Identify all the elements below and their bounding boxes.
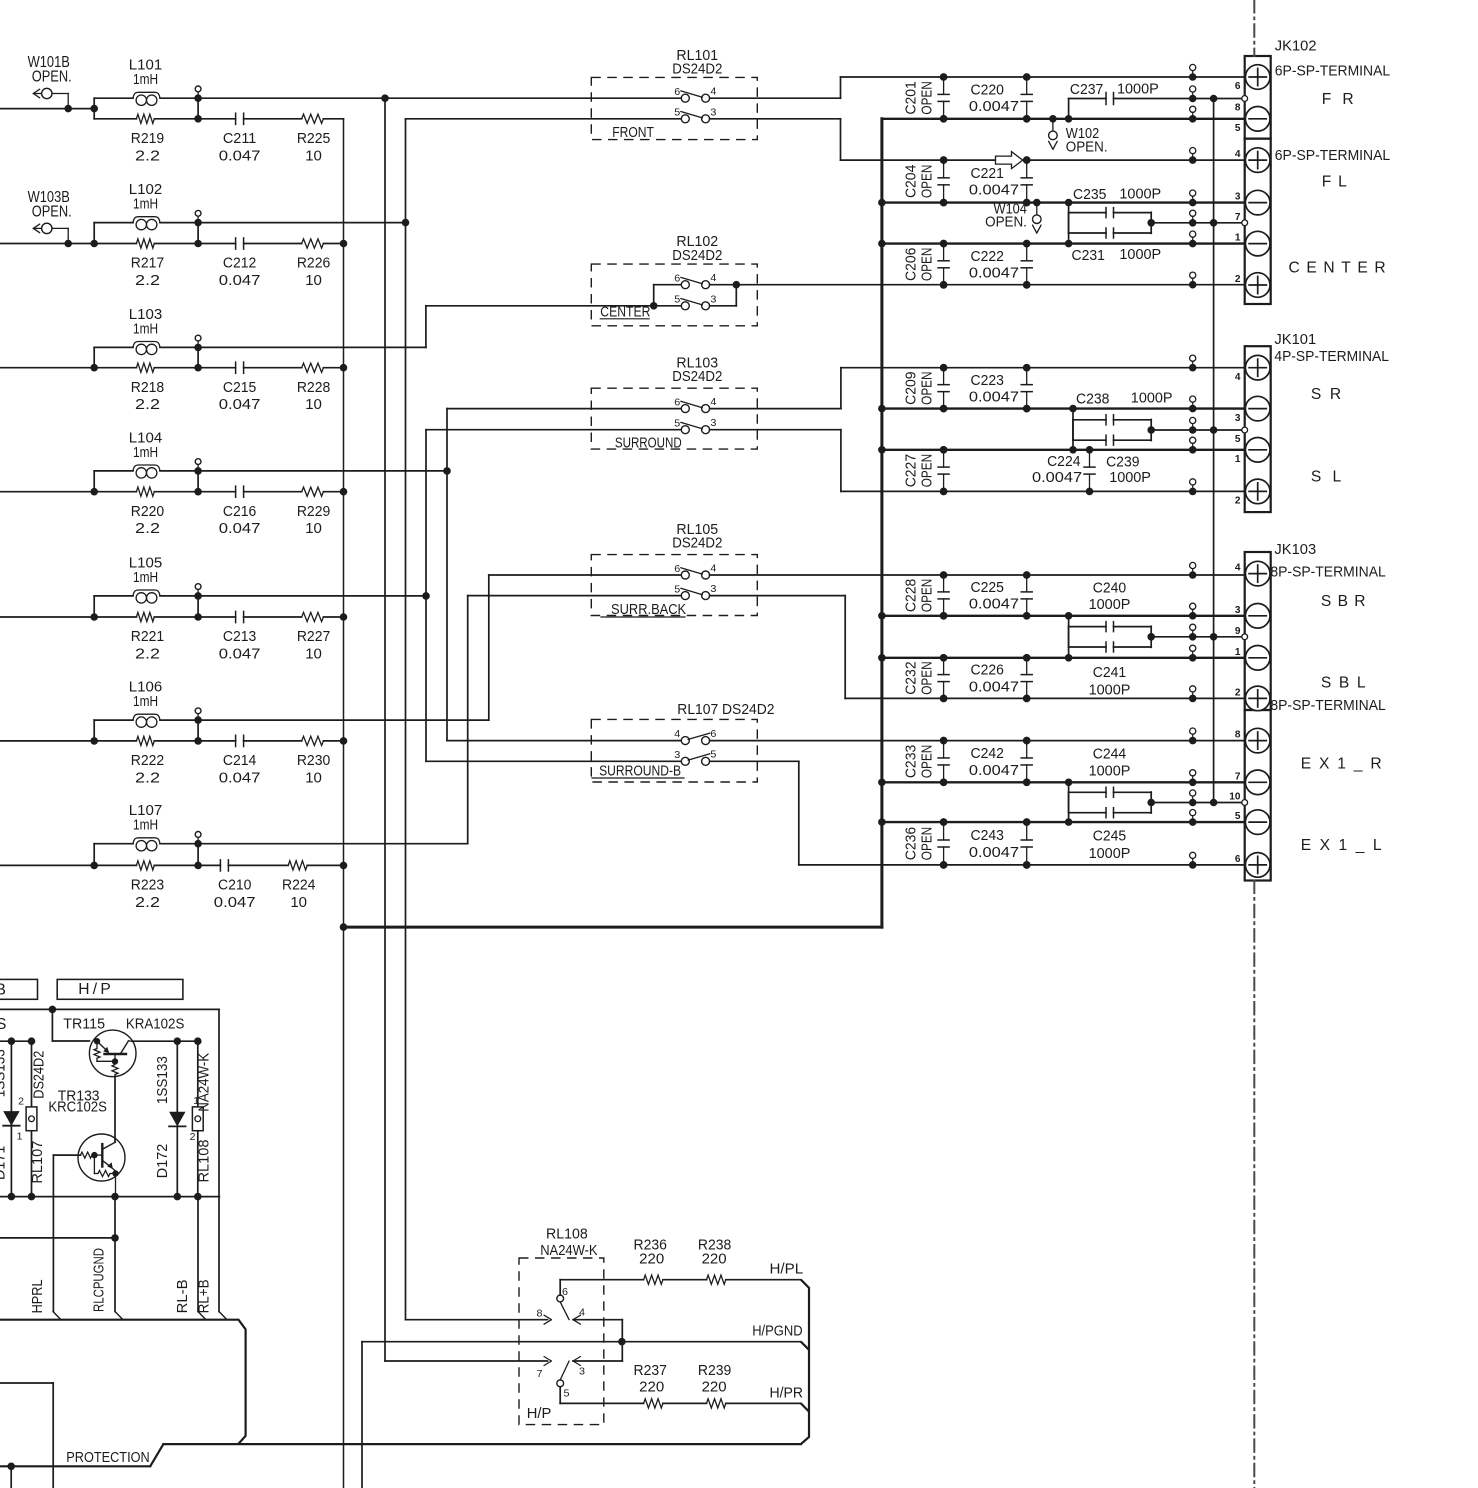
svg-text:SURROUND-B: SURROUND-B [599, 763, 681, 780]
svg-text:4: 4 [710, 86, 716, 98]
svg-text:R226: R226 [297, 255, 330, 272]
svg-text:C223: C223 [971, 372, 1004, 389]
capacitor C209 OPEN [943, 368, 945, 385]
terminal pin 4 + [1245, 561, 1270, 586]
svg-text:KRA102S: KRA102S [126, 1015, 184, 1032]
svg-text:C212: C212 [223, 255, 256, 272]
wire FL vertical [405, 119, 407, 1320]
wire input row 6 [0, 740, 94, 742]
page boundary dash-dot line [1253, 0, 1255, 56]
capacitor C240 1000P [1065, 612, 1073, 620]
svg-text:OPEN.: OPEN. [32, 204, 72, 221]
svg-text:C244: C244 [1093, 746, 1126, 763]
relay coil RL108 NA24W-K [197, 1041, 199, 1196]
svg-text:OPEN: OPEN [919, 81, 936, 114]
node SBL+ line [845, 697, 1245, 699]
node tap row 3 [194, 344, 202, 352]
svg-text:R228: R228 [297, 379, 330, 396]
svg-text:220: 220 [702, 1378, 727, 1395]
transistor TR115 KRA102S [63, 1015, 184, 1076]
svg-text:R221: R221 [131, 628, 164, 645]
svg-text:4: 4 [710, 562, 716, 574]
capacitor C233 OPEN [943, 741, 945, 758]
svg-text:OPEN: OPEN [919, 661, 936, 694]
contact RL102 pins 5-3 [654, 305, 682, 307]
contact RL102 pins 6-4 [681, 281, 689, 289]
wire SL to RL103 pin5 [426, 429, 681, 431]
terminal pin 6 + [1245, 853, 1270, 878]
node FR+ line [841, 76, 1246, 78]
node split row 7 [90, 862, 98, 870]
svg-text:3: 3 [710, 583, 716, 595]
contact RL108 pins 7-3-5 [544, 1357, 552, 1362]
resistor R229 10 [302, 487, 324, 496]
svg-text:C210: C210 [218, 877, 251, 894]
svg-text:3: 3 [1235, 191, 1241, 203]
svg-text:1: 1 [1235, 453, 1241, 465]
capacitor C235 1000P [1065, 199, 1073, 207]
svg-text:10: 10 [290, 894, 307, 911]
svg-text:C236: C236 [903, 827, 920, 860]
svg-text:2.2: 2.2 [135, 646, 160, 663]
wire TR115 collector to coils [133, 1040, 198, 1042]
svg-text:H/PGND: H/PGND [752, 1323, 802, 1340]
node SR- line [882, 407, 1246, 409]
wire RL-B [197, 1197, 199, 1312]
jumper W103B [33, 227, 41, 229]
contact RL108 pins 8-6-4 [385, 1360, 548, 1362]
svg-text:5: 5 [674, 107, 680, 119]
diode D172 1SS133 [176, 1041, 178, 1196]
svg-text:OPEN: OPEN [919, 454, 936, 487]
jumper W102 OPEN [1049, 115, 1057, 123]
svg-text:10: 10 [305, 272, 322, 289]
capacitor C225 0.0047 [1026, 575, 1028, 592]
wire TR133 base to HPRL [53, 1154, 80, 1156]
terminal pin 4 + [1245, 148, 1270, 173]
svg-text:R229: R229 [297, 503, 330, 520]
svg-text:9: 9 [1235, 625, 1241, 637]
svg-text:5: 5 [1235, 433, 1241, 445]
svg-text:H/PL: H/PL [770, 1261, 804, 1278]
node tap row 2 [194, 219, 202, 227]
capacitor C223 0.0047 [1026, 368, 1028, 385]
svg-text:1000P: 1000P [1089, 682, 1131, 699]
resistor R217 2.2 [94, 243, 136, 245]
svg-text:NA24W-K: NA24W-K [540, 1242, 597, 1259]
svg-text:R222: R222 [131, 752, 164, 769]
svg-text:1: 1 [1235, 646, 1241, 658]
svg-text:7: 7 [1235, 211, 1241, 223]
filter row 4: inductor L104 / resistor R220 / capacitor C216 / resistor R229 [0, 429, 347, 537]
capacitor C232 OPEN [943, 658, 945, 675]
svg-text:0.047: 0.047 [219, 646, 261, 663]
wire control top [0, 1008, 219, 1010]
capacitor C212 0.047 [198, 243, 236, 245]
wire input row 2 [0, 243, 94, 245]
node SBR- line [882, 615, 1246, 617]
wire RL107 out bottom [710, 760, 799, 762]
bus entry RL+B [219, 1312, 227, 1320]
svg-text:6: 6 [562, 1286, 568, 1298]
svg-text:0.0047: 0.0047 [969, 844, 1019, 861]
resistor R226 10 [302, 239, 324, 248]
svg-text:1000P: 1000P [1119, 246, 1161, 263]
resistor R219 2.2 [94, 118, 136, 120]
svg-text:OPEN.: OPEN. [1066, 139, 1108, 156]
svg-text:C213: C213 [223, 628, 256, 645]
svg-text:H/P: H/P [527, 1405, 552, 1422]
svg-text:C204: C204 [903, 165, 920, 198]
terminal pin 4 + [1245, 355, 1270, 380]
svg-text:2: 2 [1235, 495, 1241, 507]
wire SBL to RL105 pin5 [468, 595, 682, 597]
filter row 5: inductor L105 / resistor R221 / capacitor C213 / resistor R227 [0, 554, 347, 662]
svg-text:OPEN: OPEN [919, 371, 936, 404]
svg-text:R227: R227 [297, 628, 330, 645]
resistor R218 2.2 [94, 367, 136, 369]
svg-text:0.047: 0.047 [219, 147, 261, 164]
svg-text:C225: C225 [971, 579, 1004, 596]
filter row 6: inductor L106 / resistor R222 / capacitor C214 / resistor R230 [0, 679, 347, 787]
inductor L105 1mH [94, 595, 133, 597]
resistor R223 2.2 [94, 864, 136, 866]
node FL+ line [841, 159, 1246, 161]
node SL+ line [841, 490, 1246, 492]
wire row4 top to SR vertical [198, 470, 447, 472]
svg-text:0.047: 0.047 [219, 520, 261, 537]
terminal JK101 4P-SP-TERMINAL [1235, 331, 1389, 512]
node SR+ line [841, 367, 1246, 369]
svg-text:1: 1 [1235, 232, 1241, 244]
svg-text:10: 10 [305, 646, 322, 663]
node tap row 1 [194, 94, 202, 102]
svg-text:R219: R219 [131, 130, 164, 147]
svg-text:SURROUND: SURROUND [615, 434, 682, 451]
relay RL102 DS24D2 (CENTER) [591, 233, 757, 326]
svg-text:RLCPUGND: RLCPUGND [91, 1248, 108, 1312]
wire input row 5 [0, 616, 94, 618]
svg-text:6: 6 [674, 86, 680, 98]
svg-text:1mH: 1mH [133, 444, 158, 461]
svg-text:1000P: 1000P [1119, 185, 1161, 202]
svg-text:RL+B: RL+B [196, 1279, 213, 1313]
svg-text:1000P: 1000P [1109, 469, 1151, 486]
node split row 2 [90, 240, 98, 248]
filter row 7: inductor L107 / resistor R223 / capacitor C210 / resistor R224 [0, 802, 347, 911]
svg-text:C231: C231 [1072, 247, 1105, 264]
contact RL101 pins 5-3 [681, 115, 689, 123]
terminal pin 1 - [1245, 231, 1270, 256]
headphone cable run [801, 1280, 809, 1444]
svg-text:C237: C237 [1070, 81, 1103, 98]
contact RL105 pins 5-3 [681, 592, 689, 600]
svg-text:2.2: 2.2 [135, 894, 160, 911]
svg-text:1mH: 1mH [133, 569, 158, 586]
svg-text:OPEN: OPEN [919, 248, 936, 281]
svg-text:8: 8 [1235, 102, 1241, 114]
svg-text:4: 4 [710, 272, 716, 284]
svg-text:2.2: 2.2 [135, 396, 160, 413]
terminal pin 8 + [1245, 728, 1270, 753]
svg-text:0.0047: 0.0047 [969, 678, 1019, 695]
resistor R224 10 [288, 861, 307, 870]
svg-text:6: 6 [1235, 853, 1241, 865]
svg-text:0.0047: 0.0047 [969, 182, 1019, 199]
capacitor C201 OPEN [943, 77, 945, 94]
svg-text:3: 3 [674, 749, 680, 761]
svg-text:2.2: 2.2 [135, 147, 160, 164]
terminal pin 2 + [1245, 273, 1270, 298]
svg-text:2: 2 [18, 1096, 24, 1108]
svg-text:C206: C206 [903, 248, 920, 281]
svg-text:R218: R218 [131, 379, 164, 396]
wire SL vertical [425, 430, 427, 762]
net label box B [0, 979, 38, 999]
net label box H/P [57, 979, 183, 999]
svg-text:RL108: RL108 [196, 1140, 213, 1183]
capacitor C236 OPEN [943, 822, 945, 840]
relay RL108 NA24W-K (H/P) [385, 1226, 644, 1425]
svg-text:1mH: 1mH [133, 71, 158, 88]
capacitor C213 0.047 [198, 616, 236, 618]
svg-text:DS24D2: DS24D2 [672, 247, 722, 264]
svg-text:JK103: JK103 [1274, 541, 1316, 558]
node EX1_R- line [882, 781, 1246, 783]
svg-text:C235: C235 [1073, 186, 1106, 203]
svg-text:10: 10 [305, 520, 322, 537]
wire SBR to RL105 pin6 [489, 574, 682, 576]
capacitor C210 0.047 [198, 864, 220, 866]
resistor R239 220 [663, 1402, 707, 1404]
zobel common bus vertical [343, 119, 345, 1488]
resistor R225 10 [302, 114, 324, 123]
capacitor C238 1000P [1069, 405, 1077, 413]
wire input row 1 [0, 108, 94, 110]
capacitor C244 1000P [1065, 779, 1073, 787]
wire emitter chain [114, 1077, 116, 1143]
svg-text:220: 220 [702, 1251, 727, 1268]
svg-text:2: 2 [1235, 273, 1241, 285]
svg-text:0.0047: 0.0047 [969, 596, 1019, 613]
wire RL103 out bottom [710, 429, 841, 431]
svg-text:0.0047: 0.0047 [969, 98, 1019, 115]
svg-text:D171: D171 [0, 1146, 8, 1180]
svg-text:1mH: 1mH [133, 320, 158, 337]
svg-text:CENTER: CENTER [600, 303, 650, 320]
node tap row 7 [194, 840, 202, 848]
svg-text:C245: C245 [1093, 828, 1126, 845]
wire row3 top to RL102 [198, 346, 426, 348]
diode D171 1SS133 [10, 1041, 12, 1196]
svg-text:C216: C216 [223, 503, 256, 520]
node mid pin10 line [1150, 792, 1152, 813]
node split row 6 [90, 737, 98, 745]
svg-text:220: 220 [639, 1378, 664, 1395]
svg-text:4: 4 [1235, 371, 1241, 383]
svg-text:R220: R220 [131, 503, 164, 520]
node split row 5 [90, 613, 98, 621]
svg-text:6: 6 [674, 563, 680, 575]
svg-text:R239: R239 [698, 1362, 731, 1379]
PROTECTION line [0, 1465, 150, 1467]
svg-text:5: 5 [564, 1388, 570, 1400]
resistor R238 220 [663, 1279, 707, 1281]
svg-text:R224: R224 [282, 877, 315, 894]
svg-text:R217: R217 [131, 255, 164, 272]
resistor R237 220 [644, 1399, 663, 1408]
svg-text:3: 3 [710, 293, 716, 305]
node CENTER- line [882, 242, 1246, 244]
svg-text:1SS133: 1SS133 [0, 1049, 8, 1097]
capacitor C241 1000P [1065, 654, 1073, 662]
wire RL105 out bottom [710, 595, 846, 597]
wire FR feed down to RL108 [384, 98, 386, 1361]
resistor R228 10 [302, 363, 324, 372]
capacitor C216 0.047 [198, 491, 236, 493]
svg-text:3: 3 [579, 1366, 585, 1378]
node split row 1 [90, 105, 98, 113]
svg-text:1000P: 1000P [1089, 596, 1131, 613]
svg-text:220: 220 [639, 1251, 664, 1268]
jumper W104 OPEN [1033, 199, 1041, 207]
svg-text:C215: C215 [223, 379, 256, 396]
svg-text:1000P: 1000P [1117, 80, 1159, 97]
terminal pin 2 + [1245, 479, 1270, 504]
node SL- line [882, 449, 1246, 451]
svg-text:5: 5 [1235, 810, 1241, 822]
capacitor C204 OPEN [943, 160, 945, 178]
contact RL105 pins 6-4 [681, 571, 689, 579]
terminal pin 6 + [1245, 65, 1270, 90]
svg-text:B: B [0, 982, 6, 999]
svg-text:0.047: 0.047 [214, 894, 256, 911]
node split row 4 [90, 488, 98, 496]
wire RL101 out bottom [710, 118, 841, 120]
contact RL103 pins 6-4 [681, 405, 689, 413]
svg-text:C241: C241 [1093, 664, 1126, 681]
terminal pin 2 + [1245, 686, 1270, 711]
node CENTER+ line [736, 284, 1245, 286]
svg-text:2.2: 2.2 [135, 272, 160, 289]
wire row5 top to SL vertical [198, 595, 426, 597]
svg-text:OPEN: OPEN [919, 827, 936, 860]
svg-text:DS24D2: DS24D2 [31, 1051, 48, 1099]
svg-text:10: 10 [305, 769, 322, 786]
svg-text:8: 8 [1235, 729, 1241, 741]
wire RL103 out top [710, 408, 841, 410]
wire row1 top to RL101 pin6 [198, 97, 681, 99]
svg-text:1000P: 1000P [1131, 390, 1173, 407]
node FL- line [882, 201, 1246, 203]
inductor L101 1mH [94, 97, 133, 99]
capacitor C245 1000P [1065, 818, 1073, 826]
svg-text:0.047: 0.047 [219, 769, 261, 786]
wire SR vertical [446, 409, 448, 741]
svg-text:C209: C209 [903, 371, 920, 404]
svg-text:C233: C233 [903, 745, 920, 778]
capacitor C228 OPEN [943, 575, 945, 592]
wire SR to RL103 pin6 [447, 408, 681, 410]
capacitor C215 0.047 [198, 367, 236, 369]
svg-text:OPEN.: OPEN. [32, 69, 72, 86]
svg-text:1SS133: 1SS133 [154, 1056, 171, 1104]
svg-text:4: 4 [1235, 562, 1241, 574]
svg-text:RL108: RL108 [546, 1226, 588, 1243]
wire RL101 out top [710, 97, 841, 99]
resistor R236 220 [644, 1275, 663, 1284]
svg-text:R225: R225 [297, 130, 330, 147]
svg-text:1000P: 1000P [1089, 845, 1131, 862]
inductor L104 1mH [94, 470, 133, 472]
inductor L106 1mH [94, 719, 133, 721]
transistor TR133 KRC102S [48, 1087, 125, 1196]
svg-text:5: 5 [710, 749, 716, 761]
svg-text:0.0047: 0.0047 [969, 265, 1019, 282]
node tap row 5 [194, 592, 202, 600]
capacitor C222 0.0047 [1026, 244, 1028, 261]
relay RL105 DS24D2 (SURR.BACK) [591, 521, 943, 699]
svg-text:5: 5 [674, 294, 680, 306]
relay RL107 DS24D2 (SURROUND-B) [591, 701, 943, 865]
svg-text:4: 4 [1235, 148, 1241, 160]
svg-text:0.0047: 0.0047 [969, 762, 1019, 779]
capacitor C237 1000P [1065, 115, 1073, 123]
svg-text:C222: C222 [971, 248, 1004, 265]
svg-text:RL-B: RL-B [174, 1279, 191, 1313]
node FR- line [882, 118, 1246, 120]
resistor R230 10 [302, 736, 324, 745]
svg-text:4: 4 [674, 728, 680, 740]
svg-text:6P-SP-TERMINAL: 6P-SP-TERMINAL [1275, 62, 1390, 79]
wire RL105 out top [710, 574, 944, 576]
relay RL101 DS24D2 (FRONT) [591, 47, 840, 160]
wire feed to RLCPUGND [0, 1237, 115, 1239]
wire FL to RL101 pin5 [406, 118, 682, 120]
bus entry RLCPUGND [115, 1312, 123, 1320]
svg-text:0.0047: 0.0047 [969, 388, 1019, 405]
terminal JK103 8P-SP-TERMINAL [1229, 541, 1385, 880]
jumper W101B [33, 93, 41, 95]
svg-text:FRONT: FRONT [612, 124, 654, 141]
inductor L107 1mH [94, 843, 133, 845]
bus ribbon top [0, 1320, 246, 1444]
svg-text:6: 6 [674, 273, 680, 285]
svg-text:8P-SP-TERMINAL: 8P-SP-TERMINAL [1270, 563, 1385, 580]
svg-text:TR115: TR115 [63, 1015, 105, 1032]
relay RL103 DS24D2 (SURROUND) [591, 355, 841, 492]
terminal pin 3 - [1245, 190, 1270, 215]
wire input row 3 [0, 367, 94, 369]
svg-text:HPRL: HPRL [29, 1279, 46, 1313]
svg-text:2.2: 2.2 [135, 520, 160, 537]
resistor R220 2.2 [94, 491, 136, 493]
svg-text:SBL: SBL [1321, 675, 1366, 692]
filter row 2: inductor L102 / resistor R217 / capacitor C212 / resistor R226 [0, 181, 347, 289]
svg-text:C201: C201 [903, 81, 920, 114]
bus entry HPRL [53, 1312, 61, 1320]
svg-text:JK101: JK101 [1274, 331, 1316, 348]
svg-text:KRC102S: KRC102S [48, 1099, 106, 1116]
svg-text:1mH: 1mH [133, 196, 158, 213]
svg-text:R237: R237 [634, 1362, 667, 1379]
svg-text:6: 6 [1235, 80, 1241, 92]
svg-text:3: 3 [1235, 604, 1241, 616]
svg-text:C226: C226 [971, 662, 1004, 679]
terminal JK102 6P-SP-TERMINAL [1235, 37, 1390, 304]
wire row6 top to SBR feed [198, 719, 489, 721]
filter row 1: inductor L101 / resistor R219 / capacitor C211 / resistor R225 [0, 54, 344, 164]
